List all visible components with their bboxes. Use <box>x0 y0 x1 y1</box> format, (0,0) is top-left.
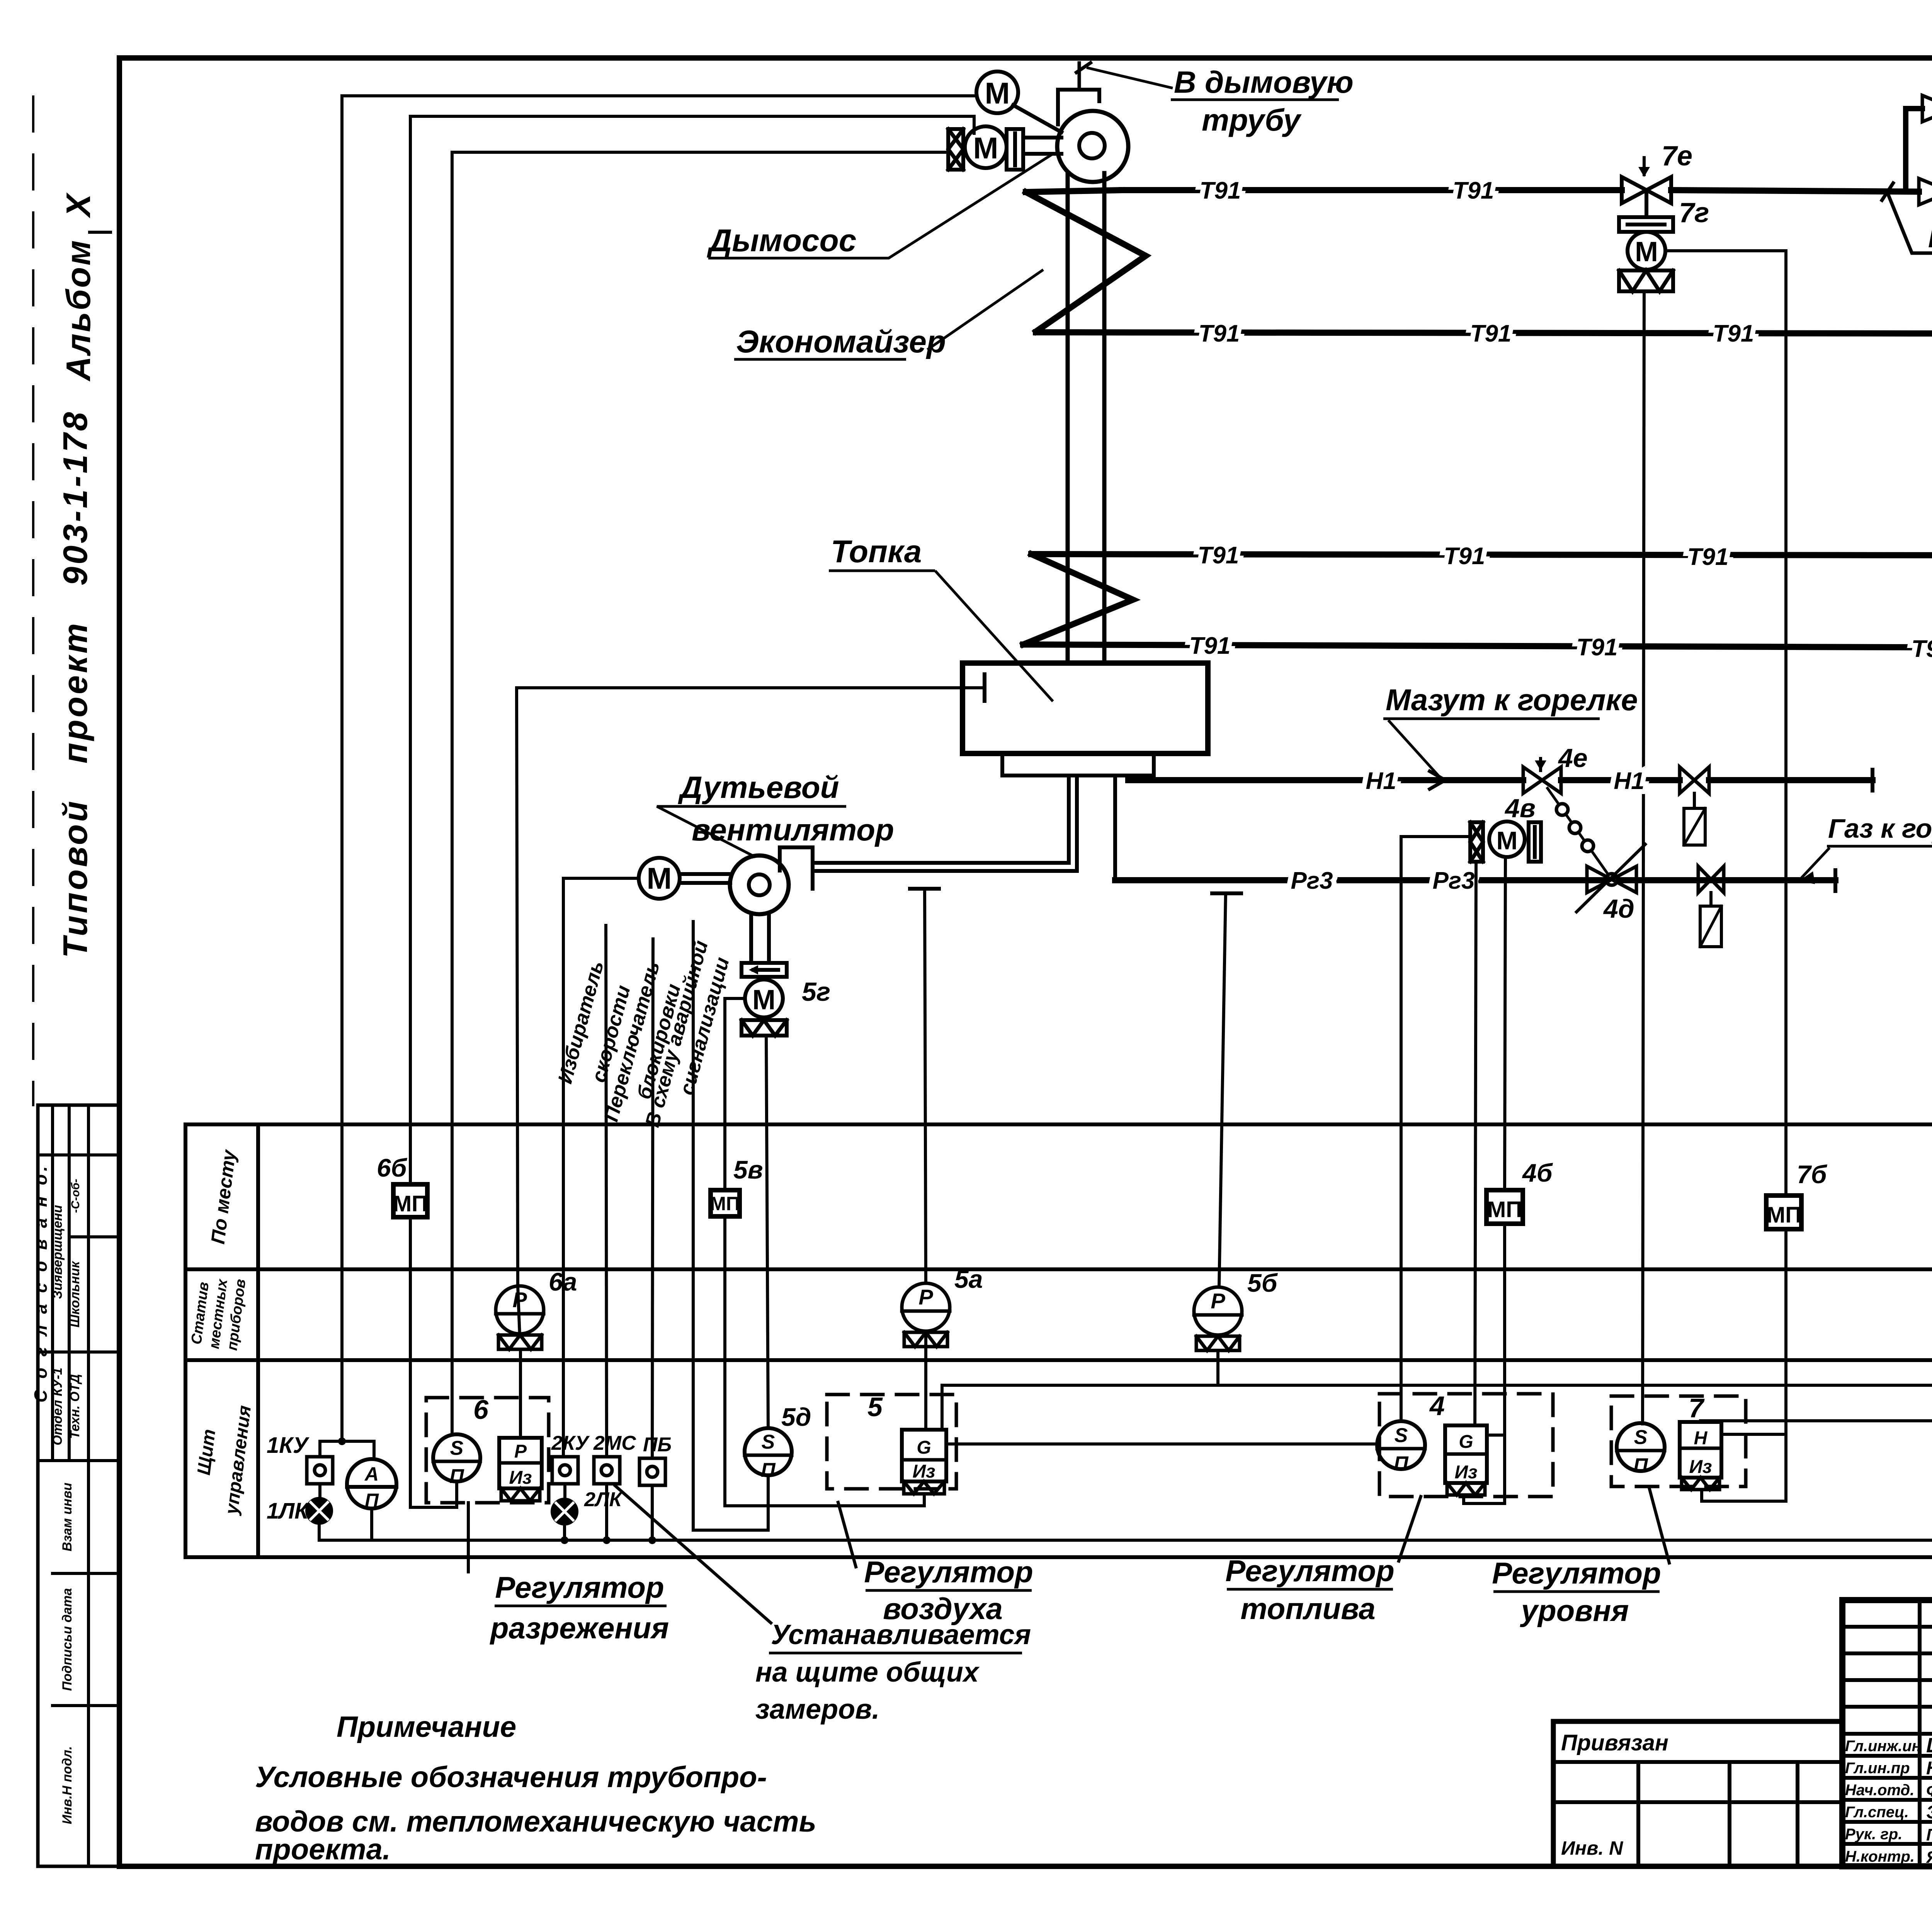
smoke exhauster fan casing <box>1058 90 1099 124</box>
svg-text:топлива: топлива <box>1240 1592 1375 1626</box>
valve 7g motor M <box>1628 232 1665 270</box>
solenoid of fuel line <box>1693 793 1696 808</box>
svg-text:Экономайзер: Экономайзер <box>736 324 946 359</box>
svg-text:Файерштейн: Файерштейн <box>1926 1781 1932 1800</box>
svg-text:Взам инви: Взам инви <box>60 1483 75 1551</box>
wire to smoke exhauster motor M (left loop) <box>342 96 977 1441</box>
svg-text:Мазут к горелке: Мазут к горелке <box>1386 683 1638 717</box>
svg-text:Т91: Т91 <box>1687 544 1729 570</box>
regulator 7 wires <box>1650 1229 1932 1563</box>
svg-text:6б: 6б <box>377 1153 408 1182</box>
svg-text:G: G <box>917 1437 931 1458</box>
fuel valve 4e <box>1523 767 1561 793</box>
svg-text:Примечание: Примечание <box>337 1711 516 1743</box>
starter MP 6b <box>393 1184 427 1217</box>
title block attachment Привязан <box>1553 1721 1842 1866</box>
svg-text:Инв. N: Инв. N <box>1561 1837 1623 1859</box>
svg-text:М: М <box>752 985 776 1015</box>
stem line from valve 7g down to regulator 7 <box>1643 291 1644 1424</box>
regulator 5 (air) <box>745 1395 956 1494</box>
svg-text:Дутьевой: Дутьевой <box>678 770 839 804</box>
svg-text:Этинген: Этинген <box>1926 1802 1932 1823</box>
regulator 4 wires <box>1399 1224 1505 1561</box>
keys 2KU 2MS PB <box>552 1457 665 1485</box>
wire actuator 5g to MP5b <box>725 998 745 1190</box>
svg-text:Альбом X: Альбом X <box>59 192 97 382</box>
control valve 7g body <box>1622 177 1671 203</box>
leader газ <box>1801 848 1830 878</box>
gauge P 6a <box>496 1286 544 1349</box>
blower fan casing <box>780 847 813 889</box>
upper branch valves <box>1922 95 1932 122</box>
solenoid of gas line <box>1709 893 1713 906</box>
svg-text:S: S <box>762 1431 775 1453</box>
svg-text:Т91: Т91 <box>1912 636 1932 662</box>
svg-text:S: S <box>1634 1426 1648 1449</box>
svg-text:Р: Р <box>514 1441 527 1462</box>
svg-text:Техн. ОТД: Техн. ОТД <box>68 1374 82 1439</box>
blower down pipe <box>749 913 753 963</box>
key 1KU <box>307 1437 374 1484</box>
svg-text:М: М <box>1635 236 1658 267</box>
svg-text:Р: Р <box>918 1285 933 1309</box>
svg-text:Из питательной: Из питательной <box>1928 224 1932 253</box>
svg-text:Из: Из <box>1689 1457 1712 1477</box>
wire to smoke exhauster vane motor / magnetic starter 6b <box>410 116 974 1184</box>
svg-text:П: П <box>761 1459 776 1481</box>
leader Экономайзер to coil <box>927 270 1043 350</box>
flow chevron on H1 <box>1430 771 1445 789</box>
svg-text:трубу: трубу <box>1202 103 1302 137</box>
svg-text:замеров.: замеров. <box>755 1694 880 1725</box>
svg-text:Инв.Н подл.: Инв.Н подл. <box>60 1746 75 1824</box>
link motor to casing <box>1013 105 1061 132</box>
svg-text:М: М <box>973 131 998 165</box>
svg-text:7: 7 <box>1689 1393 1705 1423</box>
flow arrow 7e <box>1643 158 1646 175</box>
svg-text:Ястребова: Ястребова <box>1926 1848 1932 1867</box>
feed branch riser <box>1903 109 1908 192</box>
svg-text:Газ к горелке: Газ к горелке <box>1828 813 1932 844</box>
leader мазут <box>1388 720 1439 777</box>
svg-text:П: П <box>1633 1454 1648 1477</box>
svg-text:Подписьи дата: Подписьи дата <box>60 1588 75 1691</box>
leader Топка into furnace <box>935 571 1053 701</box>
svg-text:4е: 4е <box>1558 743 1588 773</box>
gauge P 5b <box>1194 1287 1242 1350</box>
svg-text:Рук. гр.: Рук. гр. <box>1845 1826 1902 1843</box>
regulator 6 service wires <box>319 1124 1932 1623</box>
side approval stamp grid <box>38 1105 119 1866</box>
svg-text:5в: 5в <box>733 1155 763 1184</box>
leader Дымосос to fan <box>850 155 1052 258</box>
svg-text:5: 5 <box>867 1392 883 1422</box>
louver of smoke exhauster <box>948 129 963 170</box>
svg-text:5а: 5а <box>954 1265 983 1293</box>
fuel oil pipe H1 <box>1128 777 1523 783</box>
P5a T-tap and line <box>910 887 939 891</box>
svg-text:Т91: Т91 <box>1577 634 1618 661</box>
MP5b loop to G hatch <box>725 1216 924 1506</box>
junction tick <box>1881 182 1894 202</box>
svg-text:4д: 4д <box>1603 894 1634 923</box>
svg-text:Нач.отд.: Нач.отд. <box>1845 1782 1914 1799</box>
svg-text:S: S <box>450 1437 464 1459</box>
svg-text:Р: Р <box>1211 1289 1225 1313</box>
burner duct from furnace <box>1113 776 1117 880</box>
svg-text:А: А <box>364 1463 379 1485</box>
vane motor M of smoke exhauster <box>965 126 1007 168</box>
svg-text:Н.контр.: Н.контр. <box>1845 1848 1915 1865</box>
svg-text:Условные обозначения трубопро-: Условные обозначения трубопро- <box>255 1761 767 1794</box>
svg-text:Н1: Н1 <box>1614 768 1644 794</box>
pipe T91 line 3 <box>1031 554 1932 556</box>
svg-text:Гл.ин.пр: Гл.ин.пр <box>1845 1760 1910 1777</box>
svg-text:-С-об-: -С-об- <box>69 1179 82 1213</box>
regulator 6 (draught) <box>426 1398 549 1503</box>
svg-text:2ЛК: 2ЛК <box>584 1488 623 1511</box>
svg-text:2МС: 2МС <box>593 1432 636 1454</box>
regulator 7 (level) <box>1611 1396 1746 1490</box>
leader регулятор воздуха <box>838 1502 856 1567</box>
alarm circuit wire <box>693 922 768 1530</box>
upper feed branch <box>1906 106 1922 111</box>
svg-text:Из: Из <box>1454 1462 1477 1483</box>
blower outlet duct to furnace <box>813 861 1069 865</box>
svg-text:проекта.: проекта. <box>255 1833 391 1866</box>
svg-text:М: М <box>1497 826 1518 855</box>
svg-text:Рг3: Рг3 <box>1433 867 1475 894</box>
svg-text:вентилятор: вентилятор <box>692 813 894 847</box>
svg-text:Т91: Т91 <box>1199 320 1240 347</box>
regulator 4 (fuel) <box>1377 1394 1553 1497</box>
blower shaft <box>680 872 730 876</box>
svg-text:Т91: Т91 <box>1453 177 1494 204</box>
svg-text:Т91: Т91 <box>1713 320 1754 347</box>
starter MP 4b <box>1486 1190 1523 1224</box>
svg-text:Регулятор: Регулятор <box>1492 1556 1661 1590</box>
svg-text:Т91: Т91 <box>1198 542 1239 569</box>
rotated margin text: Альбом X <box>59 192 97 382</box>
svg-text:4: 4 <box>1429 1391 1445 1421</box>
svg-text:Т91: Т91 <box>1444 543 1485 570</box>
4v coupling <box>1529 822 1541 862</box>
svg-text:разрежения: разрежения <box>490 1611 669 1645</box>
svg-text:МП: МП <box>710 1193 740 1214</box>
svg-text:С о г л а с о в а н о.: С о г л а с о в а н о. <box>31 1163 51 1403</box>
svg-text:7е: 7е <box>1662 141 1692 172</box>
valve 7g yoke <box>1619 217 1673 232</box>
svg-text:Шиллер: Шиллер <box>1926 1734 1932 1757</box>
wire fan motor to key 2KU <box>563 878 639 1457</box>
lamp 1LK <box>307 1484 332 1540</box>
wire actuator 5g hatch to S/P 5d <box>766 1036 768 1428</box>
svg-text:Горностаев: Горностаев <box>1926 1825 1932 1844</box>
svg-text:Типовой проект 903-1-178: Типовой проект 903-1-178 <box>56 410 94 958</box>
fuel control actuator 4v: louver <box>1470 822 1483 862</box>
leader регулятор топлива <box>1399 1497 1421 1561</box>
svg-text:Дымосос: Дымосос <box>707 223 856 258</box>
svg-text:4б: 4б <box>1522 1158 1553 1187</box>
leader дутьевой вентилятор <box>657 806 755 857</box>
economizer coil <box>1026 192 1146 332</box>
common alarm wire <box>319 1124 1932 1540</box>
coupling of smoke exhauster <box>1007 129 1023 170</box>
svg-text:Юртаев: Юртаев <box>1926 1758 1932 1779</box>
svg-text:Рг3: Рг3 <box>1291 867 1333 894</box>
interlock switch wire <box>652 939 653 1458</box>
pipe T91 line 2 <box>1036 332 1932 334</box>
starter MP 5b <box>711 1190 740 1216</box>
shaft smoke exhauster <box>1023 136 1061 139</box>
wire M7g to MP7b <box>1665 251 1786 1196</box>
flue duct down <box>1066 175 1070 663</box>
svg-text:4в: 4в <box>1504 794 1536 823</box>
title block main grid <box>1842 1600 1932 1866</box>
svg-text:ПБ: ПБ <box>643 1434 672 1456</box>
svg-text:Н1: Н1 <box>1366 768 1396 794</box>
svg-text:5д: 5д <box>781 1403 811 1431</box>
leader to chimney <box>1087 68 1173 88</box>
instrument location table <box>185 1124 1932 1557</box>
svg-text:Т91: Т91 <box>1200 177 1241 204</box>
leader to установка note <box>615 1486 771 1623</box>
blower motor M <box>639 858 680 899</box>
W2 from gauge 7a <box>1701 1348 1932 1422</box>
wire 4v bottom to G block <box>1475 862 1476 1425</box>
svg-text:М: М <box>985 76 1010 110</box>
actuator 5g hatch box <box>742 1020 787 1036</box>
furnace draught tap <box>517 686 981 689</box>
svg-text:Н: Н <box>1694 1428 1708 1449</box>
leader из питательной <box>1888 194 1932 253</box>
furnace box <box>963 663 1208 753</box>
crossed-out gas valve 4d <box>1587 866 1636 893</box>
svg-text:Т91: Т91 <box>1189 633 1231 659</box>
svg-text:6: 6 <box>473 1395 489 1425</box>
impulse line to gauge 6a <box>517 688 518 1286</box>
4v motor M <box>1489 821 1525 857</box>
regulator 5 wires <box>725 889 1932 1567</box>
svg-text:В дымовую: В дымовую <box>1174 65 1354 99</box>
svg-text:7г: 7г <box>1679 197 1709 228</box>
svg-text:Регулятор: Регулятор <box>1225 1554 1394 1588</box>
svg-text:6а: 6а <box>549 1267 577 1296</box>
svg-text:5г: 5г <box>802 977 830 1007</box>
svg-text:Т91: Т91 <box>1470 320 1512 347</box>
left trim dash line <box>32 97 34 1105</box>
starter MP 7b <box>1766 1196 1801 1229</box>
pipe T91 line 4 <box>1023 645 1932 648</box>
svg-text:1ЛК: 1ЛК <box>267 1498 310 1524</box>
leader регулятор разрежения <box>467 1503 470 1572</box>
svg-text:Устанавливается: Устанавливается <box>771 1619 1031 1650</box>
svg-text:Отдел КУ-1: Отдел КУ-1 <box>50 1367 65 1445</box>
svg-text:1КУ: 1КУ <box>267 1433 310 1458</box>
speed selector wire <box>606 925 607 1457</box>
W1 to gauge 4a <box>1218 1352 1932 1385</box>
svg-text:5б: 5б <box>1247 1269 1278 1297</box>
meter A/P <box>347 1459 396 1509</box>
G output to regulator 4 <box>946 1442 1377 1446</box>
svg-text:Из: Из <box>912 1461 935 1482</box>
svg-text:S: S <box>1395 1424 1408 1447</box>
guide vane actuator M 5g <box>745 980 783 1017</box>
P5b T-tap and line <box>1212 891 1241 895</box>
second fuel valve <box>1680 767 1709 793</box>
chain link 4e to 4d <box>1548 788 1612 879</box>
svg-text:Регулятор: Регулятор <box>864 1555 1033 1589</box>
svg-text:Топка: Топка <box>831 534 922 569</box>
pipe T91 line 1 <box>1122 187 1622 193</box>
chimney stub <box>1078 63 1081 90</box>
motor M of smoke exhauster <box>976 71 1018 113</box>
wire 4v louver to S/P regulator 4 <box>1401 837 1470 1421</box>
leader регулятор уровня <box>1650 1489 1669 1563</box>
svg-text:Зиявершщени: Зиявершщени <box>50 1205 65 1299</box>
svg-text:2КУ: 2КУ <box>551 1432 590 1454</box>
rotated margin text: Типовой проект 903-1-178 <box>56 410 94 958</box>
wire 4v motor to MP4b <box>1505 857 1505 1190</box>
lower branch valves <box>1919 179 1932 205</box>
svg-text:МП: МП <box>1487 1197 1522 1222</box>
svg-text:Из: Из <box>509 1468 532 1488</box>
guide vane box with arrow <box>742 963 787 977</box>
svg-text:7б: 7б <box>1797 1160 1828 1189</box>
svg-text:М: М <box>647 861 672 895</box>
svg-text:Гл.спец.: Гл.спец. <box>1845 1804 1909 1821</box>
P5b to common wire W1 <box>942 1350 1218 1430</box>
svg-text:МП: МП <box>1767 1202 1801 1228</box>
svg-text:П: П <box>1394 1452 1409 1475</box>
gauge P 5a <box>902 1283 950 1347</box>
valve 7g hatch box <box>1619 270 1673 291</box>
svg-text:Школьник: Школьник <box>68 1261 82 1328</box>
furnace coil <box>1023 554 1133 645</box>
svg-text:уровня: уровня <box>1520 1594 1629 1628</box>
gas shutoff valve <box>1698 866 1724 893</box>
svg-text:Гл.инж.ин: Гл.инж.ин <box>1845 1738 1921 1755</box>
svg-text:МП: МП <box>393 1191 428 1216</box>
svg-text:G: G <box>1459 1432 1473 1452</box>
lamp 2LK <box>552 1484 577 1540</box>
svg-text:на щите общих: на щите общих <box>755 1657 980 1688</box>
gas pipe Rg3 <box>1115 877 1835 883</box>
svg-text:Регулятор: Регулятор <box>495 1570 664 1604</box>
svg-text:Привязан: Привязан <box>1561 1730 1668 1755</box>
wire to regulator 6 S/P input <box>452 152 948 1434</box>
